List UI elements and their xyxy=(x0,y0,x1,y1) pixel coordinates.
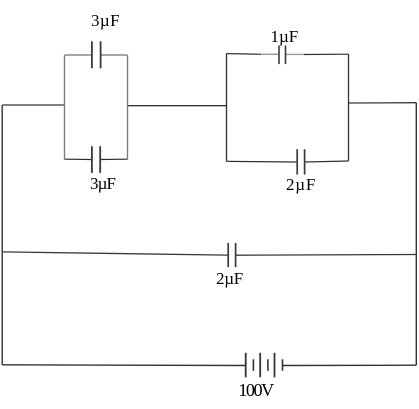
wire between blocks xyxy=(128,105,227,107)
wire top right segment xyxy=(349,102,417,104)
wire block2 bottom edge xyxy=(227,160,297,163)
node block1 right edge xyxy=(127,55,129,159)
wire block1 top edge xyxy=(65,54,92,56)
capacitor C1 3uF top plates xyxy=(91,41,93,68)
node block1 left edge xyxy=(64,55,66,159)
wire middle left xyxy=(2,252,228,255)
label 2uF right xyxy=(286,176,316,193)
label 1uF xyxy=(271,28,299,45)
wire bottom right xyxy=(283,364,417,366)
capacitor C3 1uF plates xyxy=(278,45,280,64)
label 2uF middle xyxy=(216,270,243,287)
capacitor C5 2uF middle plates xyxy=(227,243,229,267)
wire top left segment xyxy=(2,104,64,106)
battery B1 100V plates xyxy=(245,353,247,378)
wire right vertical xyxy=(415,103,417,366)
node block2 right edge xyxy=(348,54,350,161)
label 3uF bottom xyxy=(90,175,115,192)
node block2 left edge xyxy=(226,54,228,162)
wire middle right xyxy=(236,254,417,257)
wire block1 bottom edge xyxy=(65,158,92,160)
label 100V xyxy=(238,381,272,399)
label 3uF top xyxy=(91,12,120,29)
capacitor C4 2uF plates xyxy=(296,149,298,174)
wire block2 top edge xyxy=(227,53,263,56)
wire bottom left xyxy=(2,364,245,367)
wire left vertical xyxy=(1,105,3,365)
capacitor C2 3uF bottom plates xyxy=(91,146,93,173)
